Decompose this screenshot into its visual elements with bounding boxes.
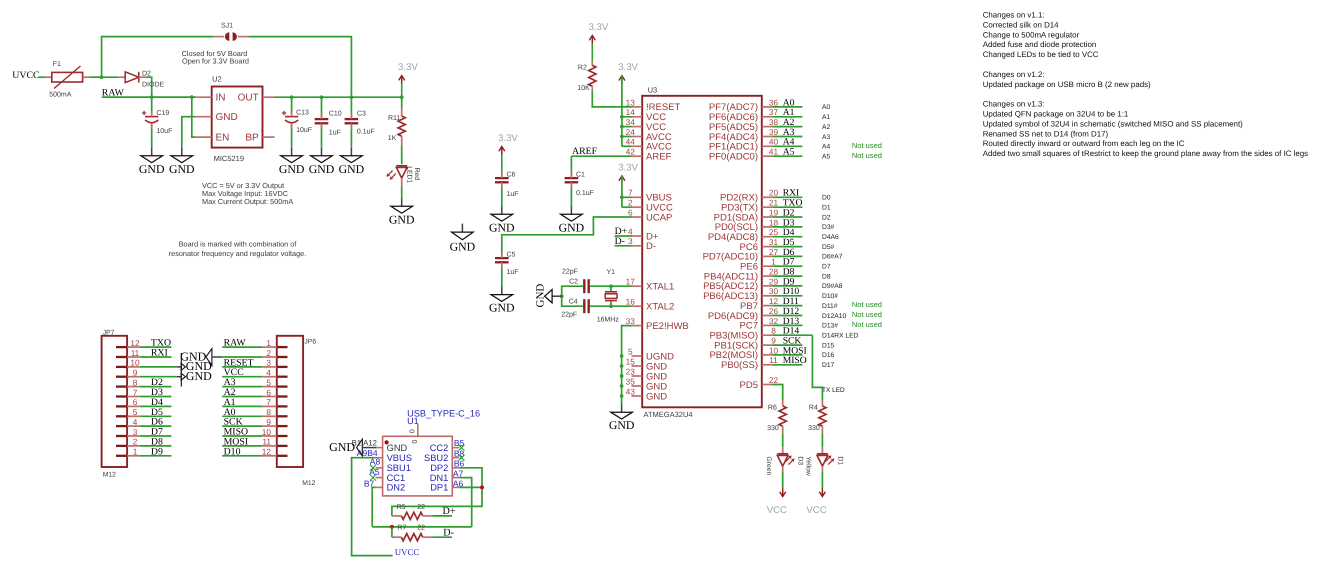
svg-text:R7: R7 <box>397 525 406 532</box>
svg-text:21: 21 <box>769 198 779 208</box>
svg-text:D9: D9 <box>151 446 163 457</box>
svg-text:D14RX LED: D14RX LED <box>822 333 859 340</box>
svg-text:Changes on v1.2:: Changes on v1.2: <box>983 70 1045 79</box>
svg-text:D10: D10 <box>224 446 241 457</box>
svg-text:D8: D8 <box>822 273 831 280</box>
svg-text:D0: D0 <box>822 195 831 202</box>
svg-text:GND: GND <box>559 220 585 234</box>
svg-text:35: 35 <box>626 376 636 386</box>
svg-text:43: 43 <box>626 386 636 396</box>
svg-text:GND: GND <box>489 220 515 234</box>
svg-text:GND: GND <box>309 162 335 176</box>
svg-text:23: 23 <box>626 366 636 376</box>
svg-text:PE2!HWB: PE2!HWB <box>646 321 689 332</box>
svg-text:34: 34 <box>626 117 636 127</box>
svg-text:C3: C3 <box>357 111 366 118</box>
svg-text:17: 17 <box>626 277 636 287</box>
svg-text:19: 19 <box>769 207 779 217</box>
svg-text:14: 14 <box>626 107 636 117</box>
svg-text:OUT: OUT <box>238 93 259 104</box>
svg-text:D+: D+ <box>443 506 456 517</box>
svg-text:R2: R2 <box>578 65 587 72</box>
svg-text:28: 28 <box>769 267 779 277</box>
svg-text:JP6: JP6 <box>304 338 316 345</box>
svg-text:D2: D2 <box>142 71 151 78</box>
svg-text:4: 4 <box>628 226 633 236</box>
svg-text:PD5: PD5 <box>740 380 758 391</box>
svg-text:Changes on v1.3:: Changes on v1.3: <box>983 100 1045 109</box>
svg-text:AREF: AREF <box>646 152 672 163</box>
svg-text:Board is marked with combinati: Board is marked with combination of <box>179 239 298 248</box>
svg-text:IN: IN <box>216 93 226 104</box>
svg-text:D2: D2 <box>822 214 831 221</box>
svg-text:MIC5219: MIC5219 <box>214 154 244 163</box>
svg-text:GND: GND <box>339 162 365 176</box>
svg-text:0.1uF: 0.1uF <box>357 129 375 136</box>
svg-text:XTAL1: XTAL1 <box>646 282 674 293</box>
svg-text:41: 41 <box>769 147 779 157</box>
svg-text:GND: GND <box>489 301 515 315</box>
svg-text:3: 3 <box>628 236 633 246</box>
svg-text:37: 37 <box>769 107 779 117</box>
svg-text:9: 9 <box>771 336 776 346</box>
svg-text:PB0(SS): PB0(SS) <box>721 360 758 371</box>
svg-text:GND: GND <box>646 391 667 402</box>
svg-text:22pF: 22pF <box>561 311 577 318</box>
svg-text:DP1: DP1 <box>430 483 448 493</box>
svg-text:Updated package on USB micro B: Updated package on USB micro B (2 new pa… <box>983 80 1151 89</box>
svg-text:R4: R4 <box>809 404 818 411</box>
svg-text:GND: GND <box>450 240 476 254</box>
svg-text:7: 7 <box>628 188 633 198</box>
svg-text:Red: Red <box>413 168 420 181</box>
svg-text:RXI: RXI <box>151 348 168 359</box>
svg-text:U3: U3 <box>648 86 658 95</box>
svg-text:18: 18 <box>769 217 779 227</box>
svg-text:8: 8 <box>771 326 776 336</box>
svg-text:3.3V: 3.3V <box>398 62 418 73</box>
svg-text:GND: GND <box>389 212 415 226</box>
svg-text:CC1: CC1 <box>387 473 406 483</box>
svg-text:13: 13 <box>626 97 636 107</box>
svg-text:A12: A12 <box>363 439 377 448</box>
svg-text:R6: R6 <box>768 404 777 411</box>
svg-text:22: 22 <box>417 504 425 511</box>
svg-text:Green: Green <box>765 456 772 475</box>
svg-text:D1: D1 <box>822 205 831 212</box>
svg-text:CC2: CC2 <box>430 443 449 453</box>
svg-text:6: 6 <box>628 207 633 217</box>
svg-text:D5#: D5# <box>822 244 835 251</box>
svg-text:RAW: RAW <box>224 338 247 349</box>
svg-text:BP: BP <box>245 133 259 144</box>
svg-text:31: 31 <box>769 237 779 247</box>
svg-text:D15: D15 <box>822 342 835 349</box>
svg-text:UVCC: UVCC <box>12 70 39 81</box>
svg-text:DP2: DP2 <box>430 463 448 473</box>
svg-text:A4: A4 <box>822 144 830 151</box>
svg-text:DN1: DN1 <box>430 473 449 483</box>
svg-text:D16: D16 <box>822 352 835 359</box>
svg-text:D-: D- <box>646 241 656 252</box>
svg-text:24: 24 <box>626 127 636 137</box>
svg-text:D1: D1 <box>837 456 844 465</box>
svg-text:U1: U1 <box>407 416 419 426</box>
svg-text:16: 16 <box>626 297 636 307</box>
svg-text:C19: C19 <box>156 110 169 117</box>
svg-text:R11: R11 <box>388 115 400 122</box>
svg-text:10uF: 10uF <box>156 128 172 135</box>
svg-text:Yellow: Yellow <box>804 456 811 475</box>
svg-text:VCC: VCC <box>806 505 826 516</box>
svg-text:3.3V: 3.3V <box>618 162 638 173</box>
svg-text:Not used: Not used <box>852 320 882 329</box>
svg-text:Corrected silk on D14: Corrected silk on D14 <box>983 20 1059 29</box>
svg-text:Added two small squares of tRe: Added two small squares of tRestrict to … <box>983 149 1308 158</box>
svg-text:A3: A3 <box>822 134 830 141</box>
svg-text:20: 20 <box>769 188 779 198</box>
svg-text:UCAP: UCAP <box>646 212 672 223</box>
svg-text:Routed directly inward or outw: Routed directly inward or outward from e… <box>983 139 1185 148</box>
svg-text:A0: A0 <box>822 104 830 111</box>
svg-text:C13: C13 <box>296 110 309 117</box>
svg-text:42: 42 <box>626 147 636 157</box>
svg-text:GND: GND <box>216 112 238 123</box>
svg-text:36: 36 <box>769 97 779 107</box>
svg-text:1uF: 1uF <box>507 269 519 276</box>
svg-text:22pF: 22pF <box>562 268 578 275</box>
svg-text:D13#: D13# <box>822 323 838 330</box>
svg-text:F1: F1 <box>53 61 61 68</box>
svg-text:Updated symbol of 32U4 in sche: Updated symbol of 32U4 in schematic (swi… <box>983 119 1243 128</box>
svg-text:D-: D- <box>443 528 454 539</box>
svg-text:M12: M12 <box>302 480 315 487</box>
svg-text:Changes on v1.1:: Changes on v1.1: <box>983 11 1045 20</box>
svg-text:ATMEGA32U4: ATMEGA32U4 <box>644 410 693 419</box>
svg-text:D11#: D11# <box>822 303 838 310</box>
svg-text:330: 330 <box>767 425 779 432</box>
svg-text:GND: GND <box>609 418 635 432</box>
svg-text:C1: C1 <box>576 171 585 178</box>
svg-text:GND: GND <box>387 443 408 453</box>
svg-text:2: 2 <box>628 198 633 208</box>
svg-text:500mA: 500mA <box>49 92 72 99</box>
svg-text:SBU1: SBU1 <box>387 463 411 473</box>
svg-text:10: 10 <box>769 345 779 355</box>
svg-text:39: 39 <box>769 127 779 137</box>
svg-text:27: 27 <box>769 247 779 257</box>
svg-text:SJ1: SJ1 <box>221 22 233 29</box>
svg-text:D6#A7: D6#A7 <box>822 254 843 261</box>
svg-text:3.3V: 3.3V <box>589 22 609 33</box>
svg-text:EN: EN <box>216 133 230 144</box>
svg-text:Not used: Not used <box>852 300 882 309</box>
svg-text:44: 44 <box>626 137 636 147</box>
svg-text:Added fuse and diode protectio: Added fuse and diode protection <box>983 40 1097 49</box>
svg-text:22: 22 <box>769 375 779 385</box>
svg-text:Updated QFN package on 32U4 to: Updated QFN package on 32U4 to be 1:1 <box>983 110 1129 119</box>
svg-text:30: 30 <box>769 286 779 296</box>
svg-text:25: 25 <box>769 227 779 237</box>
svg-text:3.3V: 3.3V <box>618 62 638 73</box>
svg-text:Renamed SS net to D14 (from D1: Renamed SS net to D14 (from D17) <box>983 129 1109 138</box>
svg-text:D10#: D10# <box>822 293 838 300</box>
svg-text:D4A6: D4A6 <box>822 234 839 241</box>
svg-text:D9#A8: D9#A8 <box>822 283 843 290</box>
svg-text:C10: C10 <box>329 111 342 118</box>
svg-text:D3#: D3# <box>822 224 835 231</box>
svg-text:A5: A5 <box>822 154 830 161</box>
svg-text:26: 26 <box>769 306 779 316</box>
svg-text:GND: GND <box>535 284 547 308</box>
svg-text:GND: GND <box>329 440 355 454</box>
svg-text:GND: GND <box>139 162 165 176</box>
svg-text:C4: C4 <box>569 299 578 306</box>
svg-text:Max Current Output: 500mA: Max Current Output: 500mA <box>202 197 293 206</box>
svg-text:10uF: 10uF <box>296 127 312 134</box>
svg-text:22: 22 <box>417 525 425 532</box>
svg-text:resonator frequency and regula: resonator frequency and regulator voltag… <box>169 249 307 258</box>
svg-text:1K: 1K <box>388 135 397 142</box>
svg-text:Not used: Not used <box>852 141 882 150</box>
svg-text:29: 29 <box>769 276 779 286</box>
svg-text:DIODE: DIODE <box>142 81 165 88</box>
svg-text:MISO: MISO <box>783 355 807 366</box>
svg-text:XTAL2: XTAL2 <box>646 302 674 313</box>
svg-text:1uF: 1uF <box>507 191 519 198</box>
svg-text:10K: 10K <box>577 85 590 92</box>
svg-text:A2: A2 <box>822 124 830 131</box>
svg-text:D12A10: D12A10 <box>822 313 846 320</box>
svg-text:0.1uF: 0.1uF <box>576 190 594 197</box>
svg-text:D3: D3 <box>797 456 804 465</box>
svg-text:GND: GND <box>279 162 305 176</box>
svg-text:JP7: JP7 <box>103 329 115 336</box>
svg-text:Changed LEDs to be tied to VCC: Changed LEDs to be tied to VCC <box>983 50 1099 59</box>
svg-text:DN2: DN2 <box>387 483 406 493</box>
svg-text:Y1: Y1 <box>607 269 616 276</box>
svg-text:GND: GND <box>186 369 212 383</box>
svg-text:R5: R5 <box>397 504 406 511</box>
svg-text:Not used: Not used <box>852 151 882 160</box>
svg-text:38: 38 <box>769 117 779 127</box>
svg-text:0: 0 <box>408 429 415 433</box>
svg-text:PF0(ADC0): PF0(ADC0) <box>709 152 758 163</box>
svg-text:11: 11 <box>769 355 778 365</box>
svg-text:1: 1 <box>771 257 776 267</box>
svg-text:M12: M12 <box>103 472 116 479</box>
svg-text:C5: C5 <box>507 252 516 259</box>
svg-text:12: 12 <box>769 296 779 306</box>
svg-text:D7: D7 <box>822 264 831 271</box>
svg-text:15: 15 <box>626 356 636 366</box>
svg-text:VCC: VCC <box>767 505 787 516</box>
svg-text:C6: C6 <box>507 171 516 178</box>
svg-text:TX LED: TX LED <box>822 387 845 394</box>
svg-text:A5: A5 <box>783 147 795 158</box>
svg-text:Change to 500mA regulator: Change to 500mA regulator <box>983 30 1080 39</box>
svg-text:GND: GND <box>169 162 195 176</box>
svg-text:33: 33 <box>626 316 636 326</box>
svg-text:330: 330 <box>808 425 820 432</box>
svg-text:0: 0 <box>410 440 417 444</box>
svg-text:Open for 3.3V Board: Open for 3.3V Board <box>182 57 249 66</box>
svg-text:LED1: LED1 <box>406 166 413 183</box>
svg-text:40: 40 <box>769 137 779 147</box>
svg-text:1uF: 1uF <box>329 130 341 137</box>
svg-text:D17: D17 <box>822 362 835 369</box>
svg-text:5: 5 <box>628 346 633 356</box>
svg-text:SBU2: SBU2 <box>424 453 448 463</box>
svg-text:VBUS: VBUS <box>387 453 412 463</box>
svg-text:32: 32 <box>769 316 779 326</box>
svg-text:UVCC: UVCC <box>395 547 420 557</box>
svg-text:A1: A1 <box>822 114 830 121</box>
svg-text:C2: C2 <box>569 278 578 285</box>
svg-text:U2: U2 <box>212 75 222 84</box>
svg-text:3.3V: 3.3V <box>498 133 518 144</box>
svg-text:16MHz: 16MHz <box>597 317 620 324</box>
svg-text:Not used: Not used <box>852 310 882 319</box>
